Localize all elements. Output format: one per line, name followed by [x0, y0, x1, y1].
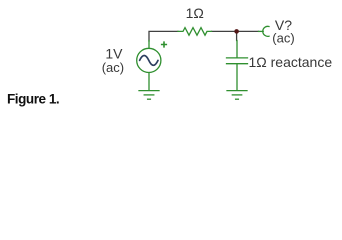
svg-text:1Ω: 1Ω: [186, 5, 204, 21]
svg-text:(ac): (ac): [102, 60, 124, 75]
svg-text:1Ω reactance: 1Ω reactance: [249, 54, 333, 70]
svg-text:Figure 1.: Figure 1.: [7, 91, 59, 106]
svg-text:(ac): (ac): [272, 30, 294, 45]
